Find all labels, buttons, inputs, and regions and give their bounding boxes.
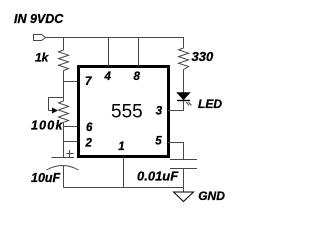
- potentiometer R 100k: [49, 98, 69, 123]
- resistor R 330: [179, 48, 189, 70]
- svg-text:330: 330: [192, 49, 214, 64]
- potentiometer wiper arrowhead: [52, 108, 58, 114]
- svg-text:5: 5: [155, 135, 162, 147]
- wire rail to 330: [183, 38, 185, 49]
- wire 330 to LED: [183, 70, 185, 93]
- wire bottom rail: [64, 187, 185, 189]
- wire LED to pin3: [183, 101, 185, 111]
- wire pin5 stub: [168, 143, 184, 160]
- wire pot to cap: [63, 122, 65, 157]
- svg-text:2: 2: [85, 138, 93, 150]
- wire pin1 stub: [123, 157, 125, 188]
- svg-text:6: 6: [86, 122, 93, 134]
- svg-text:1: 1: [118, 141, 124, 153]
- LED D1: [177, 93, 192, 106]
- svg-text:IN 9VDC: IN 9VDC: [14, 12, 64, 26]
- wire pin2 stub: [64, 141, 79, 143]
- svg-text:8: 8: [134, 71, 141, 83]
- svg-text:100k: 100k: [31, 119, 64, 133]
- resistor R 1k: [59, 50, 69, 71]
- wire cap to ground: [183, 169, 185, 193]
- svg-text:555: 555: [111, 102, 143, 123]
- svg-text:3: 3: [156, 105, 163, 117]
- svg-text:7: 7: [85, 76, 92, 88]
- IC U1 555 timer body: [79, 67, 169, 157]
- wire pin7 stub: [64, 81, 79, 83]
- svg-text:1k: 1k: [35, 51, 50, 65]
- wire rail to 1k: [63, 38, 65, 51]
- svg-text:10uF: 10uF: [31, 171, 61, 185]
- wire 1k to pot: [63, 71, 65, 102]
- svg-text:0.01uF: 0.01uF: [137, 169, 179, 184]
- capacitor C 10uF: [47, 158, 79, 171]
- wire pin4 stub: [108, 38, 110, 67]
- ground: [174, 192, 194, 202]
- wire pin8 stub: [138, 38, 140, 67]
- connector input terminal: [34, 35, 46, 41]
- wire pin6 stub: [64, 126, 79, 128]
- svg-text:GND: GND: [198, 189, 225, 203]
- svg-text:4: 4: [104, 71, 112, 83]
- wire top rail: [46, 37, 185, 39]
- wire cap to bottom rail: [63, 166, 65, 188]
- svg-text:LED: LED: [198, 97, 222, 111]
- capacitor C 0.01uF: [170, 160, 197, 169]
- capacitor C 10uF plus sign: [67, 150, 74, 157]
- wire pin3 stub: [168, 110, 184, 112]
